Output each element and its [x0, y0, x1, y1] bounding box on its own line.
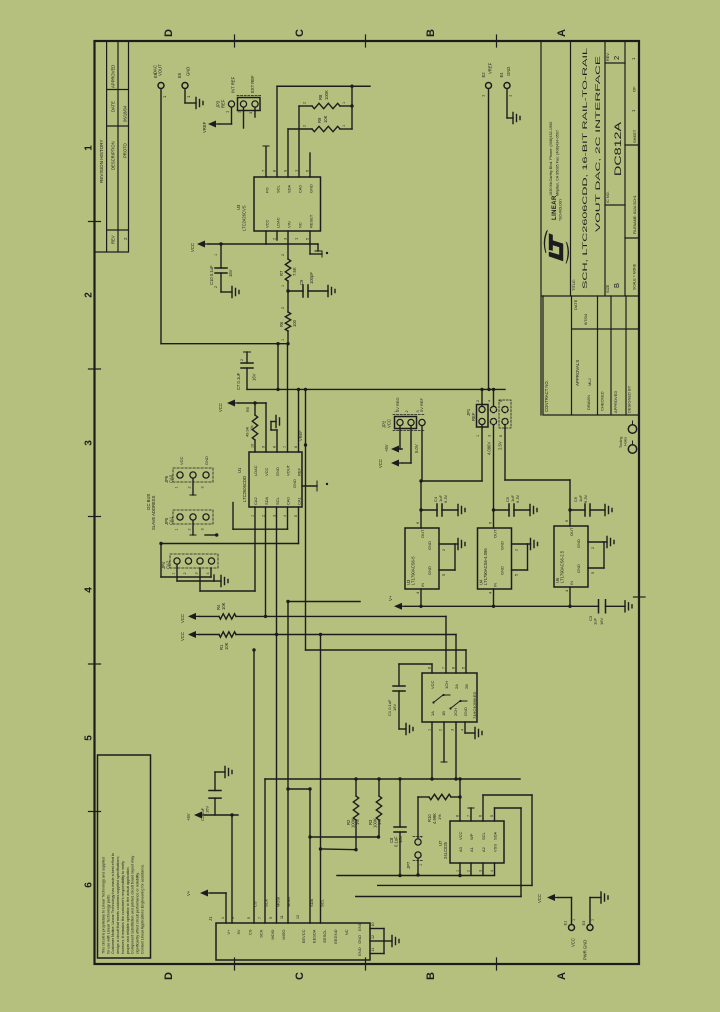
- svg-text:2: 2: [183, 572, 187, 574]
- svg-text:SDA: SDA: [287, 184, 292, 193]
- capacitor C1 (switch bypass): [399, 663, 432, 665]
- turret E4 GND: [504, 83, 510, 89]
- svg-text:A: A: [556, 972, 568, 980]
- svg-text:Contact Linear Applications En: Contact Linear Applications Engineering …: [140, 864, 144, 954]
- svg-text:Holes: Holes: [624, 437, 628, 446]
- svg-text:GND: GND: [204, 456, 209, 465]
- svg-text:6.3V: 6.3V: [443, 494, 448, 503]
- net arrow +5V: [194, 812, 202, 819]
- svg-text:1uF: 1uF: [593, 618, 598, 625]
- wire bus D VREF line to switch: [306, 649, 467, 651]
- svg-text:VCC: VCC: [264, 467, 269, 476]
- svg-text:U1: U1: [237, 467, 242, 473]
- svg-text:2: 2: [467, 870, 471, 872]
- wire E3 to ground: [589, 898, 591, 924]
- svg-text:SCK: SCK: [259, 929, 264, 938]
- svg-text:6: 6: [84, 882, 95, 888]
- svg-text:16V: 16V: [392, 704, 397, 711]
- jumper JP4 CA2: [170, 554, 218, 568]
- svg-text:2: 2: [442, 549, 446, 551]
- svg-text:V+: V+: [388, 595, 393, 601]
- svg-text:1: 1: [476, 435, 480, 437]
- svg-text:E2: E2: [481, 72, 486, 78]
- svg-text:GND: GND: [506, 67, 511, 76]
- wire VCC bus py779: [265, 778, 520, 780]
- jumper JP7: [415, 839, 421, 845]
- svg-text:D: D: [163, 29, 175, 37]
- svg-text:1: 1: [342, 102, 346, 104]
- svg-text:OF: OF: [632, 86, 637, 92]
- svg-text:1: 1: [251, 515, 255, 517]
- svg-text:GND: GND: [357, 947, 362, 956]
- ground U5: [464, 722, 466, 733]
- svg-text:CA0: CA0: [169, 474, 174, 483]
- svg-text:2: 2: [303, 102, 307, 104]
- svg-text:VCC: VCC: [387, 419, 392, 428]
- svg-text:IN: IN: [493, 583, 498, 587]
- svg-text:V+: V+: [226, 929, 231, 935]
- svg-text:B: B: [425, 972, 437, 980]
- svg-text:5V: 5V: [236, 929, 241, 934]
- svg-text:IN: IN: [420, 583, 425, 587]
- wire E2 to VREF rail: [488, 90, 490, 390]
- svg-text:D: D: [163, 972, 175, 980]
- svg-text:9: 9: [269, 917, 273, 919]
- wire U3ref out: [420, 481, 422, 528]
- svg-text:VOUT: VOUT: [286, 464, 291, 476]
- turret E3 PWR GND: [587, 925, 593, 931]
- svg-text:2A: 2A: [454, 684, 459, 689]
- svg-text:SCL: SCL: [275, 496, 280, 505]
- svg-text:B: B: [612, 283, 621, 288]
- svg-text:SCK: SCK: [264, 898, 269, 907]
- svg-text:however, it remains the custom: however, it remains the customer's respo…: [121, 861, 125, 954]
- svg-text:4: 4: [84, 587, 95, 593]
- svg-text:6: 6: [499, 400, 503, 402]
- svg-text:2: 2: [84, 292, 95, 298]
- wire U3 VCC pin down-left: [265, 231, 267, 244]
- svg-text:VCC: VCC: [430, 680, 435, 689]
- svg-text:2: 2: [591, 547, 595, 549]
- wire bus C SCL line to switch: [277, 634, 457, 636]
- svg-text:4: 4: [461, 729, 465, 731]
- zone ticks: [89, 221, 101, 223]
- svg-text:CA2: CA2: [166, 560, 171, 569]
- svg-text:2: 2: [188, 486, 192, 488]
- svg-text:74HC4066KED: 74HC4066KED: [472, 692, 477, 719]
- svg-text:CHECKED: CHECKED: [600, 391, 605, 411]
- resistor R5 LDAC pullup: [254, 403, 256, 415]
- svg-text:24LC025: 24LC025: [443, 841, 448, 859]
- svg-text:EESDA: EESDA: [312, 929, 317, 943]
- wire bus B SDA line to switch: [266, 615, 447, 617]
- wire 4.096V to JP1: [493, 425, 495, 528]
- svg-text:GND: GND: [500, 541, 505, 550]
- svg-text:3: 3: [84, 440, 95, 446]
- svg-text:design a circuit that meets cu: design a circuit that meets customer-sup…: [116, 856, 120, 954]
- svg-text:SDA: SDA: [493, 831, 498, 840]
- svg-text:1: 1: [342, 125, 346, 127]
- wire JP2 pin2 to VCC arrow: [410, 427, 412, 464]
- svg-text:OUT: OUT: [420, 529, 425, 538]
- svg-text:2: 2: [281, 307, 285, 309]
- svg-text:GND: GND: [576, 564, 581, 573]
- wire U1 VOUT to DAC VOUT node: [287, 344, 289, 452]
- svg-text:VREF: VREF: [488, 62, 493, 74]
- wire bus A (601.5): [288, 601, 360, 603]
- svg-text:16V: 16V: [252, 373, 257, 381]
- svg-text:Milpitas, CA 95035 Fax:: Milpitas, CA 95035 Fax: (408)434-0507: [556, 130, 560, 196]
- svg-text:SCALE = NONE: SCALE = NONE: [633, 263, 637, 290]
- net arrow VCC (U1): [227, 400, 235, 407]
- svg-text:CA0: CA0: [286, 496, 291, 505]
- svg-text:1630 McCarthy Blvd. Phone: (: 1630 McCarthy Blvd. Phone: (408)432-1900: [549, 122, 553, 196]
- svg-text:GND: GND: [186, 67, 191, 76]
- svg-text:SCL: SCL: [481, 831, 486, 840]
- svg-text:C7 0.1uF: C7 0.1uF: [236, 372, 241, 390]
- svg-text:3: 3: [195, 572, 199, 574]
- regulator U3 LT1790ACS6-5: [405, 528, 439, 589]
- wire JP3 pin3 stub: [254, 108, 256, 117]
- svg-text:TITLE:: TITLE:: [571, 279, 576, 291]
- svg-text:2: 2: [240, 359, 244, 361]
- ground C3: [625, 601, 632, 612]
- svg-text:VOUT DAC, 2C INTERFACE: VOUT DAC, 2C INTERFACE: [595, 55, 602, 232]
- svg-text:C9: C9: [299, 279, 304, 285]
- svg-text:APPROVALS: APPROVALS: [575, 360, 580, 386]
- svg-text:GND: GND: [357, 935, 362, 944]
- svg-text:VCC: VCC: [180, 614, 185, 623]
- svg-text:1: 1: [175, 528, 179, 530]
- net arrow VCC (U3): [197, 241, 205, 248]
- svg-text:EEVCC: EEVCC: [301, 929, 306, 943]
- wire JP6 center stub: [192, 479, 194, 495]
- wire SCL pullup line: [321, 848, 357, 851]
- svg-text:GND: GND: [463, 707, 468, 716]
- svg-text:VCC: VCC: [190, 243, 195, 252]
- svg-text:6.3V: 6.3V: [583, 494, 588, 503]
- IC U5 74HC4066: [422, 673, 477, 722]
- wire 5V to connector: [231, 815, 233, 923]
- svg-text:MOSI: MOSI: [270, 930, 275, 940]
- svg-text:R7: R7: [279, 270, 284, 276]
- svg-text:TECHNOLOGY: TECHNOLOGY: [559, 198, 563, 221]
- svg-text:B: B: [425, 29, 437, 37]
- wire 2.5V to JP1: [504, 425, 506, 480]
- svg-text:CA1: CA1: [297, 496, 302, 505]
- wire +5V line: [205, 814, 238, 816]
- jumper JP6 CA0: [173, 468, 213, 482]
- svg-text:1B: 1B: [441, 711, 446, 716]
- svg-text:REF: REF: [221, 99, 226, 108]
- wire U3 RESET pin: [309, 231, 311, 254]
- svg-text:R6: R6: [279, 321, 284, 327]
- capacitor C2: [214, 798, 216, 815]
- jumper JP5 CA1: [173, 510, 213, 524]
- svg-text:1%: 1%: [437, 814, 442, 820]
- wire VREF rail top (py86): [277, 85, 370, 87]
- svg-text:VCC: VCC: [571, 938, 576, 947]
- svg-text:REV: REV: [111, 235, 116, 244]
- svg-text:5: 5: [515, 574, 519, 576]
- capacitor C5: [492, 508, 495, 511]
- svg-text:2: 2: [188, 528, 192, 530]
- svg-text:2: 2: [123, 237, 128, 240]
- wire U3 GND stub: [309, 153, 311, 177]
- svg-text:LINEAR: LINEAR: [552, 195, 558, 220]
- jumper JP2 VCC: [395, 417, 417, 429]
- svg-text:REF: REF: [297, 467, 302, 476]
- svg-text:2: 2: [214, 286, 218, 288]
- capacitor C6: [568, 508, 571, 511]
- wire EESDA vertical: [309, 789, 311, 923]
- svg-text:CS: CS: [253, 901, 258, 907]
- wire U6 IN to V+: [569, 587, 571, 606]
- svg-text:LT1790ACS6-4.096: LT1790ACS6-4.096: [483, 548, 488, 585]
- wire U3 CA0 up to R8: [298, 106, 300, 177]
- svg-text:EESCL: EESCL: [322, 929, 327, 943]
- svg-text:A0: A0: [458, 846, 463, 852]
- svg-text:10: 10: [251, 444, 255, 448]
- svg-text:C: C: [294, 29, 306, 37]
- svg-text:R9: R9: [317, 117, 322, 123]
- wire VREF drop: [277, 344, 279, 390]
- capacitor C9: [286, 289, 289, 292]
- svg-text:REV.: REV.: [606, 52, 610, 61]
- net arrow VREF: [208, 121, 216, 128]
- turret E2 VREF: [486, 83, 492, 89]
- svg-text:5: 5: [247, 917, 251, 919]
- svg-text:6: 6: [428, 667, 432, 669]
- svg-text:VCC: VCC: [458, 831, 463, 840]
- svg-text:1: 1: [221, 917, 225, 919]
- ground C9: [328, 286, 335, 297]
- IC U7 24LC025 EEPROM: [450, 821, 504, 863]
- svg-text:CONTRACT NO.: CONTRACT NO.: [544, 380, 549, 412]
- svg-text:7: 7: [283, 446, 287, 448]
- svg-text:VSS: VSS: [493, 844, 498, 852]
- svg-text:4: 4: [490, 870, 494, 872]
- svg-text:GND: GND: [275, 467, 280, 476]
- svg-text:5.0V: 5.0V: [414, 444, 419, 453]
- svg-text:8: 8: [456, 815, 460, 817]
- svg-text:VCC: VCC: [180, 632, 185, 641]
- resistor R9: [288, 128, 312, 130]
- svg-text:5: 5: [490, 815, 494, 817]
- wire U7 bottom pins to gnd line: [459, 863, 461, 875]
- svg-text:1A: 1A: [430, 711, 435, 716]
- wire U1 REF to VREF rail: [298, 389, 300, 452]
- svg-text:REVISION HISTORY: REVISION HISTORY: [99, 140, 104, 183]
- svg-text:13: 13: [296, 915, 300, 919]
- svg-text:GND: GND: [576, 539, 581, 548]
- wire CS vertical: [253, 650, 255, 923]
- svg-text:10K: 10K: [224, 642, 229, 650]
- svg-text:GND: GND: [427, 541, 432, 550]
- svg-text:3: 3: [201, 486, 205, 488]
- svg-text:DC812A: DC812A: [613, 121, 624, 176]
- wire U3 SCL up to R9: [276, 86, 278, 177]
- svg-text:1: 1: [281, 285, 285, 287]
- svg-text:1: 1: [281, 339, 285, 341]
- svg-text:6/7/04: 6/7/04: [583, 313, 588, 325]
- approvals table: [543, 296, 639, 415]
- wire E4 to ground: [506, 90, 508, 118]
- svg-text:VREF: VREF: [202, 121, 207, 133]
- wire U7 SDA loop: [494, 808, 496, 821]
- svg-text:3: 3: [479, 870, 483, 872]
- svg-text:SDA: SDA: [309, 898, 314, 907]
- wire U1 CA0: [287, 507, 289, 529]
- wire U1 CA1 to JP4: [298, 507, 300, 544]
- wire E1: [558, 897, 572, 899]
- svg-text:DESCRIPTION: DESCRIPTION: [111, 141, 116, 170]
- svg-text:VCC: VCC: [537, 894, 542, 903]
- svg-text:PROTO: PROTO: [123, 142, 128, 158]
- svg-text:7: 7: [258, 917, 262, 919]
- ground C2: [225, 767, 232, 778]
- wires JP1 top pads to VREF rail: [481, 389, 483, 406]
- svg-text:6.3V: 6.3V: [515, 494, 520, 503]
- svg-text:LT1790ACS6-5: LT1790ACS6-5: [411, 556, 416, 585]
- capacitor C3: [599, 600, 606, 613]
- svg-text:1%: 1%: [377, 819, 382, 825]
- switch symbols inside U5: [434, 695, 450, 702]
- svg-text:7: 7: [467, 815, 471, 817]
- wire MISO vertical: [287, 602, 289, 924]
- svg-text:MISO: MISO: [286, 897, 291, 907]
- svg-text:1: 1: [591, 919, 595, 921]
- svg-text:WP: WP: [469, 833, 474, 840]
- svg-text:1: 1: [172, 572, 176, 574]
- ground C10: [232, 287, 239, 298]
- svg-text:2: 2: [476, 400, 480, 402]
- wire U3 F0 stub: [265, 147, 267, 177]
- title block: [541, 41, 639, 415]
- ground U1 GND pin: [276, 430, 278, 452]
- wire JP5 center stub: [192, 521, 194, 535]
- wire E5 to ground: [184, 90, 186, 103]
- LT logo: [544, 230, 569, 264]
- svg-text:5: 5: [294, 515, 298, 517]
- svg-text:OUT: OUT: [569, 527, 574, 536]
- wire V+ rail: [405, 605, 599, 607]
- svg-text:1: 1: [572, 919, 576, 921]
- ground E3: [601, 892, 608, 903]
- svg-text:Component substitution and pri: Component substitution and printed circu…: [131, 856, 135, 954]
- svg-text:VOUT: VOUT: [158, 64, 163, 76]
- wires U5 bottom pins: [431, 722, 433, 779]
- svg-text:SCL: SCL: [276, 184, 281, 193]
- ground E5: [196, 98, 203, 109]
- svg-text:1%: 1%: [250, 425, 254, 431]
- resistor R10: [429, 794, 451, 799]
- capacitor C8: [399, 779, 401, 827]
- wire U4 IN to V+: [493, 589, 495, 606]
- svg-text:SCH, LTC2606CDD, 16-BIT RAI: SCH, LTC2606CDD, 16-BIT RAIL-TO-RAIL: [582, 48, 589, 289]
- svg-text:E3: E3: [581, 920, 586, 926]
- svg-text:+5V: +5V: [186, 813, 191, 821]
- svg-text:SDA: SDA: [264, 496, 269, 505]
- svg-text:4.096V: 4.096V: [487, 442, 492, 455]
- svg-text:LDAC: LDAC: [276, 217, 281, 228]
- svg-text:LTC2606CDD: LTC2606CDD: [242, 476, 247, 502]
- svg-text:VCC: VCC: [265, 219, 270, 228]
- svg-text:2: 2: [281, 254, 285, 256]
- resistor R2: [355, 779, 357, 796]
- svg-text:CA1: CA1: [169, 516, 174, 525]
- capacitor C7: [246, 352, 248, 363]
- svg-text:proper and reliable operation: proper and reliable operation in the act…: [126, 866, 130, 954]
- svg-text:1%: 1%: [355, 819, 360, 825]
- svg-text:49.9K: 49.9K: [245, 426, 250, 437]
- resistor R7: [287, 231, 289, 259]
- svg-text:SHEET: SHEET: [632, 129, 637, 143]
- svg-text:PWR GND: PWR GND: [583, 940, 588, 960]
- svg-text:VREF: VREF: [298, 430, 303, 441]
- svg-text:GND: GND: [309, 184, 314, 193]
- svg-text:SLAVE ADDRESS: SLAVE ADDRESS: [151, 495, 156, 530]
- turret E5 GND: [182, 83, 188, 89]
- wire U7 WP stub: [470, 808, 472, 821]
- svg-text:2: 2: [612, 56, 621, 60]
- resistor R3: [378, 779, 380, 796]
- svg-text:16V: 16V: [228, 269, 233, 277]
- svg-text:100K: 100K: [324, 90, 329, 100]
- svg-text:DESIGNED BY: DESIGNED BY: [627, 385, 632, 413]
- op-amp U3 LTC2426CVS: [254, 177, 321, 231]
- wire U1 CA2 to JP4: [254, 507, 256, 591]
- svg-text:SIZE: SIZE: [606, 284, 610, 293]
- svg-text:16V: 16V: [205, 806, 210, 813]
- svg-text:GND: GND: [500, 566, 505, 575]
- wire VREF rail to U1 REF: [305, 389, 307, 650]
- resistor R4: [188, 613, 196, 620]
- wire VCC line right end tick: [266, 243, 318, 245]
- svg-text:11: 11: [280, 915, 284, 919]
- regulator U6 LT1790ACS6-2.5: [554, 526, 588, 587]
- border frame: [95, 41, 640, 964]
- wire SCK vertical: [264, 779, 266, 923]
- svg-text:2: 2: [515, 549, 519, 551]
- ground E4: [513, 113, 520, 124]
- svg-text:1: 1: [456, 870, 460, 872]
- wire EESCL vertical: [320, 635, 322, 924]
- svg-text:CA0: CA0: [298, 184, 303, 193]
- svg-text:IC NO.: IC NO.: [606, 191, 610, 203]
- wire JP2 pin1 to +5V arrow: [399, 427, 401, 450]
- wire VREF rail: [247, 388, 505, 390]
- svg-text:8: 8: [273, 446, 277, 448]
- svg-text:1: 1: [175, 486, 179, 488]
- svg-text:3: 3: [231, 917, 235, 919]
- svg-text:E5: E5: [177, 72, 182, 78]
- svg-text:16V: 16V: [398, 835, 403, 843]
- svg-text:16V: 16V: [599, 618, 604, 625]
- svg-text:3: 3: [488, 435, 492, 437]
- svg-text:2: 2: [419, 836, 423, 838]
- wire SDA pullup line: [310, 836, 379, 838]
- capacitor C4: [419, 508, 422, 511]
- svg-text:EEGND: EEGND: [333, 929, 338, 943]
- svg-text:LT1790ACS6-2.5: LT1790ACS6-2.5: [560, 550, 565, 583]
- wire U1 VCC line: [238, 402, 266, 404]
- wire DAC VOUT horizontal: [161, 343, 288, 345]
- svg-text:E4: E4: [499, 72, 504, 78]
- jumper JP3 REF: [228, 101, 234, 107]
- svg-text:5: 5: [442, 574, 446, 576]
- svg-text:8: 8: [452, 667, 456, 669]
